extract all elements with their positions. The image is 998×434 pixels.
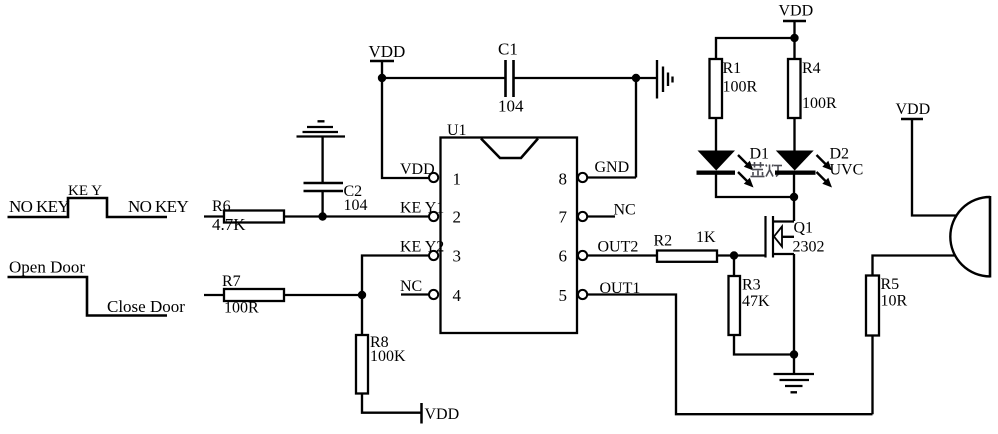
svg-text:104: 104 [344, 197, 368, 214]
op-amp U1 IC body [441, 122, 578, 333]
node VDD/R1/R4 junction [790, 34, 798, 42]
wire VDD down [793, 21, 795, 59]
wire junction down to pin8 [635, 78, 637, 178]
svg-text:1: 1 [453, 169, 462, 188]
waveform KEY pulse [8, 183, 189, 217]
node D2/drain junction [790, 193, 798, 201]
svg-text:R5: R5 [881, 276, 900, 293]
svg-text:UVC: UVC [830, 162, 864, 179]
resistor R6 4.7K [212, 198, 284, 234]
svg-text:R2: R2 [654, 233, 673, 250]
svg-text:KE Y: KE Y [68, 183, 102, 199]
wire VDD down to pin1 [382, 61, 429, 178]
svg-text:D2: D2 [830, 146, 850, 163]
svg-text:KE Y2: KE Y2 [400, 239, 444, 256]
wire VDD to C1 [382, 77, 505, 79]
pin 5 circle [578, 290, 587, 299]
svg-text:100R: 100R [723, 79, 758, 96]
power VDD (bottom left) [422, 403, 460, 424]
node C2/KEY1 junction [318, 212, 326, 220]
wire R3 bottom to source [734, 335, 794, 355]
resistor R8 100K [356, 334, 406, 394]
svg-text:Q1: Q1 [794, 220, 814, 237]
svg-text:100R: 100R [802, 95, 837, 112]
pin 8 circle [578, 173, 587, 182]
svg-text:4: 4 [453, 286, 462, 305]
wire C1 to ground [514, 77, 658, 79]
svg-text:VDD: VDD [400, 161, 435, 178]
svg-text:100R: 100R [224, 300, 259, 317]
wire R7 left [204, 294, 224, 296]
power VDD (top center) [369, 42, 406, 61]
svg-text:VDD: VDD [896, 101, 931, 118]
svg-text:VDD: VDD [369, 42, 406, 61]
pin 1 circle [429, 173, 438, 182]
wire R1 to D1 [715, 118, 717, 151]
wire pin6 to R2 [587, 254, 657, 256]
svg-text:NC: NC [614, 202, 636, 219]
wire R5 top to buzzer [873, 256, 956, 276]
svg-text:R3: R3 [742, 277, 761, 294]
LED D1 blue [697, 146, 770, 188]
svg-text:R7: R7 [222, 273, 241, 290]
wire Q1 source down [793, 254, 795, 374]
wire R5 bottom [871, 336, 873, 415]
svg-text:4.7K: 4.7K [212, 215, 246, 234]
svg-text:NO KEY: NO KEY [128, 197, 188, 216]
svg-text:R6: R6 [212, 198, 231, 215]
node source/ground junction [790, 350, 798, 358]
pin 7 circle [578, 212, 587, 221]
transistor Q1 2302 NMOS [766, 216, 825, 258]
capacitor C2 104 [304, 183, 368, 214]
resistor R3 47K [729, 276, 771, 335]
svg-text:GND: GND [595, 159, 630, 176]
svg-text:3: 3 [453, 247, 462, 266]
wire NC pin7 stub [587, 215, 615, 217]
wire R6 left [204, 215, 224, 217]
wire pin5 OUT1 routing [587, 295, 873, 415]
svg-text:KE Y1: KE Y1 [400, 200, 444, 217]
wire NC pin4 stub [401, 293, 429, 295]
ground (earth, rotated right) [657, 60, 673, 99]
resistor R4 100R [788, 59, 837, 118]
node R2/R3/gate junction [730, 251, 738, 259]
ground (inverted earth) above C2 [297, 121, 346, 136]
pin 4 circle [429, 290, 438, 299]
svg-text:U1: U1 [447, 122, 467, 139]
power VDD (top right) [779, 3, 814, 22]
svg-text:D1: D1 [750, 146, 770, 163]
node R7/R8/KEY2 junction [358, 291, 366, 299]
pin 6 circle [578, 251, 587, 260]
pin 3 circle [429, 251, 438, 260]
svg-text:5: 5 [559, 286, 568, 305]
resistor R1 100R [710, 59, 758, 118]
resistor R5 10R [866, 276, 908, 336]
wire pin8 GND [587, 176, 636, 178]
wire junction to R8 [361, 295, 363, 335]
wire junction to R3 [733, 256, 735, 277]
node VDD/C1 junction [378, 74, 386, 82]
svg-text:R4: R4 [802, 60, 821, 77]
svg-text:C1: C1 [498, 40, 518, 59]
svg-text:R1: R1 [723, 60, 742, 77]
LED D2 UVC [775, 146, 863, 188]
svg-text:VDD: VDD [425, 406, 460, 423]
wire VDD to buzzer [912, 119, 956, 216]
wire D2 to Q1 drain [793, 175, 795, 222]
wire D1 to drain rail [716, 175, 794, 198]
svg-text:2: 2 [453, 208, 462, 227]
svg-text:OUT2: OUT2 [598, 239, 639, 256]
wire C2 bottom [321, 191, 323, 217]
wire C2 top [321, 137, 323, 184]
label 蓝灯 (blue light) drawn strokes [751, 162, 783, 177]
svg-text:Open Door: Open Door [9, 258, 85, 277]
svg-text:2302: 2302 [793, 239, 825, 256]
svg-text:10R: 10R [881, 293, 908, 310]
capacitor C1 104 [498, 40, 524, 116]
ground (earth) below Q1 [774, 374, 815, 392]
wire R7 to junction [284, 294, 362, 296]
pin 2 circle [429, 212, 438, 221]
resistor R2 1K [654, 229, 718, 262]
resistor R7 100R [222, 273, 284, 317]
svg-text:7: 7 [559, 208, 568, 227]
wire R6 to KEY1 pin2 [284, 215, 429, 217]
svg-text:100K: 100K [370, 348, 406, 365]
power VDD (right) [896, 101, 931, 119]
svg-text:47K: 47K [742, 293, 770, 310]
svg-text:NO KEY: NO KEY [9, 197, 69, 216]
wire VDD to R1 [716, 38, 795, 59]
svg-text:NC: NC [400, 278, 422, 295]
svg-text:104: 104 [498, 97, 524, 116]
svg-text:Close Door: Close Door [107, 297, 185, 316]
node C1/GND junction [632, 74, 640, 82]
waveform Open/Close Door [8, 258, 186, 317]
wire R4 to D2 [793, 118, 795, 151]
svg-text:8: 8 [559, 169, 568, 188]
svg-text:VDD: VDD [779, 3, 814, 20]
svg-text:6: 6 [559, 247, 568, 266]
svg-text:1K: 1K [696, 229, 716, 246]
wire junction to KEY2 pin3 [362, 256, 429, 296]
wire R2 to gate [717, 254, 766, 256]
wire R8 to VDD [362, 394, 421, 413]
buzzer LS1 [950, 196, 990, 278]
